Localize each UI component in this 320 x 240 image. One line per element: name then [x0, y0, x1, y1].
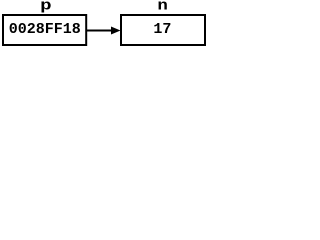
svg-text:0028FF18: 0028FF18	[9, 21, 81, 38]
box p	[3, 15, 86, 45]
arrowhead	[111, 27, 121, 35]
svg-text:17: 17	[153, 21, 171, 38]
svg-text:n: n	[157, 0, 168, 15]
box n	[121, 15, 205, 45]
wire arrow shaft p to n	[87, 30, 112, 32]
svg-text:p: p	[40, 0, 52, 15]
